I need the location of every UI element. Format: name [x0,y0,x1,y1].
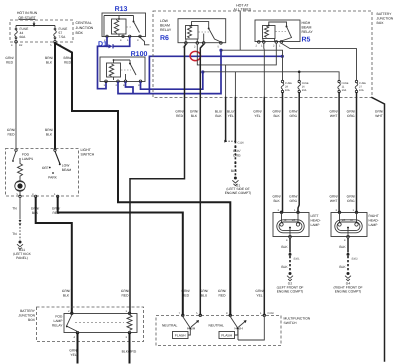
wire GRN/RED light switch to multifunction switch [52,198,190,315]
fuse feed bus [203,71,339,81]
left headlamp [273,213,321,237]
svg-text:GRN/: GRN/ [31,207,39,211]
svg-text:R13: R13 [115,6,128,13]
svg-text:10A: 10A [285,89,290,92]
svg-text:YEL: YEL [228,114,234,118]
svg-text:ENGINE COMPT): ENGINE COMPT) [225,191,252,195]
navy highlighted wire to R5/fuses [149,56,282,93]
svg-text:BLK/: BLK/ [233,149,240,153]
svg-text:BEAM: BEAM [160,24,170,28]
fog lamp relay [52,314,137,333]
svg-text:RED: RED [8,133,16,137]
battery junction box (bottom) [37,307,144,342]
svg-text:LOW: LOW [160,19,169,23]
svg-text:TN: TN [12,207,17,211]
svg-text:JUNCTION: JUNCTION [377,17,394,21]
svg-text:HOT IN RUN: HOT IN RUN [17,11,38,15]
multifunction switch box [156,316,281,346]
wire TN to ground G31 [12,198,21,241]
svg-text:GRN/: GRN/ [69,348,77,352]
svg-text:7.5A: 7.5A [59,35,67,39]
multifunction switch high/flash contacts 2 [209,317,247,339]
svg-text:BLK: BLK [191,114,198,118]
svg-text:RED: RED [6,61,14,65]
R5 pins [256,41,283,48]
svg-text:BLK: BLK [273,199,280,203]
wire R6 coil to R5 coil (through red circle) [197,43,276,65]
diode D1 and navy wire from R13 to R100 pin 1 [98,38,130,89]
light switch pin for fog [15,149,17,151]
svg-text:WHT: WHT [330,114,338,118]
relay R13 [102,13,146,37]
battery junction box (top) [153,11,372,98]
right headlamp ground wire BLK [339,238,358,271]
svg-text:BLK: BLK [215,114,222,118]
multifunction switch high/flash contacts 1 [162,317,199,339]
svg-text:JUNCTION: JUNCTION [76,26,94,30]
svg-text:BLU: BLU [201,294,208,298]
svg-text:GRN/: GRN/ [255,289,263,293]
svg-text:BOX: BOX [377,21,385,25]
inline connector C126 [224,140,244,145]
ground G1 [225,177,252,195]
svg-text:FLASH: FLASH [221,334,232,338]
svg-text:LEFT: LEFT [311,214,319,218]
svg-text:BRN/: BRN/ [45,128,53,132]
wire BLK/ORG from fog lamp relay down [122,334,137,363]
fuse 11 [338,80,349,92]
svg-text:BLK: BLK [339,265,346,269]
svg-text:GRN/: GRN/ [5,56,13,60]
wire GRN/BLK light switch to fog lamp relay [31,198,72,314]
svg-text:LAMP: LAMP [311,223,321,227]
central junction box [10,20,73,42]
svg-text:ORG: ORG [290,114,298,118]
svg-text:ORG: ORG [290,199,298,203]
svg-text:YEL: YEL [254,114,260,118]
svg-text:RED: RED [122,294,130,298]
svg-text:BLK: BLK [273,114,280,118]
svg-text:S101: S101 [294,258,301,261]
svg-text:FOG: FOG [55,314,63,318]
wire from navy node to HOT feed [221,50,283,80]
relay R5 [255,20,300,42]
svg-text:BRN/: BRN/ [45,56,53,60]
svg-text:PARK: PARK [48,176,58,180]
svg-text:GRN/: GRN/ [62,289,70,293]
svg-text:RED: RED [176,114,184,118]
svg-text:RELAY: RELAY [302,30,314,34]
svg-text:C202: C202 [268,312,275,315]
multifunction internal wire to pin 1 [238,317,264,340]
wire R5 switch to fuse 27 [281,43,356,80]
svg-text:BATTERY: BATTERY [377,12,393,16]
wire BRN/BLK from fuse 57 to light switch [45,43,55,149]
right headlamp [331,213,379,237]
svg-text:GRN/: GRN/ [218,289,226,293]
node HOT AT ALL TIMES [233,3,251,11]
svg-text:ORG: ORG [347,199,355,203]
main light switch lever [42,151,71,179]
wire GRN/YEL from R5 pin 1 to multifunction switch [253,43,264,315]
svg-text:RELAY: RELAY [52,323,63,327]
svg-text:FLASH: FLASH [175,334,186,338]
svg-text:OFF: OFF [42,166,49,170]
svg-text:LAMP: LAMP [369,223,379,227]
fuse 44 [15,26,29,41]
svg-text:D2: D2 [19,44,23,47]
svg-text:WHT: WHT [330,199,338,203]
svg-text:SWITCH: SWITCH [284,321,298,325]
wire BRN/RED from pin 5 down to multifunction switch [55,43,230,315]
svg-text:10A: 10A [359,89,364,92]
svg-text:GRN/: GRN/ [175,109,183,113]
left headlamp ground wire BLK [281,238,300,271]
svg-text:RED: RED [219,294,227,298]
svg-text:GRN/: GRN/ [253,109,261,113]
svg-text:PANEL): PANEL) [16,256,28,260]
svg-text:10A: 10A [302,89,307,92]
node HOT IN RUN OR START [17,11,38,20]
ground G31 [13,241,32,261]
svg-text:RELAY: RELAY [160,28,172,32]
red highlight circle on junction [190,51,200,60]
svg-text:BOX: BOX [28,318,36,322]
light switch box [6,149,79,197]
fog indicator lamp [15,181,25,196]
svg-text:BLK: BLK [281,265,288,269]
relay R6 [178,19,226,43]
svg-text:C126: C126 [238,142,245,145]
wire GRN/RED from R6 pin 1 to fog lamp relay [121,44,186,313]
wire BLK/ORG dashed to ground G1 [231,141,241,175]
svg-text:BLU/: BLU/ [215,109,222,113]
wire GRN/BLK from R6 pin 3 to multifunction switch [190,44,208,315]
left headlamp pins [278,209,300,242]
svg-text:GRN/: GRN/ [329,109,337,113]
right headlamp pins [336,209,358,242]
svg-text:60A: 60A [20,35,27,39]
svg-text:LO: LO [292,219,295,222]
svg-text:HEAD-: HEAD- [369,219,379,223]
R100 pins [104,80,142,87]
svg-text:YEL: YEL [70,353,76,357]
svg-text:GRN/: GRN/ [190,109,198,113]
svg-text:JUNCTION: JUNCTION [18,314,35,318]
svg-text:WHT: WHT [375,114,383,118]
svg-text:RED: RED [53,211,61,215]
svg-text:GRN/: GRN/ [347,194,355,198]
svg-text:GRN/: GRN/ [272,109,280,113]
svg-text:LAMPS: LAMPS [22,157,34,161]
svg-text:GRN/: GRN/ [272,194,280,198]
fog lamps switch [12,151,34,162]
svg-text:SWITCH: SWITCH [81,153,95,157]
wire GRN/RED from fuse 44 to light switch [5,43,16,149]
svg-text:RED: RED [64,61,72,65]
svg-text:RED: RED [182,294,190,298]
svg-text:GRN/: GRN/ [289,194,297,198]
fuse 16 [298,80,309,92]
wire GRN/YEL from fog lamp relay down [69,334,77,363]
svg-text:BLU/: BLU/ [227,109,234,113]
svg-text:FOG: FOG [22,153,30,157]
wire GRN/WHT right margin [372,98,385,362]
relay R100 [100,57,145,82]
svg-text:HI: HI [284,219,287,222]
svg-text:GRN/: GRN/ [7,128,15,132]
svg-text:CENTRAL: CENTRAL [76,21,92,25]
wire GRN/BLK fuse 29 to left headlamp [272,93,282,212]
svg-text:S102: S102 [352,258,359,261]
svg-text:LIGHT: LIGHT [81,148,92,152]
wire GRN/ORG fuse 16 to left headlamp [289,93,299,212]
svg-text:BLK: BLK [46,61,53,65]
navy node dot on R6 pin 5 wire [219,49,222,52]
wire GRN/ORG fuse 27 to right headlamp [347,93,357,212]
svg-text:BRN/: BRN/ [64,56,72,60]
svg-text:LAMP: LAMP [54,319,64,323]
svg-text:HEAD-: HEAD- [311,219,321,223]
svg-text:GRN/: GRN/ [347,109,355,113]
svg-text:LOW: LOW [62,164,70,168]
svg-text:NEUTRAL: NEUTRAL [209,324,225,328]
navy node dot at right end [281,55,284,58]
svg-text:GRN/: GRN/ [200,289,208,293]
pin 4 of CJB [11,41,23,48]
svg-text:TN: TN [12,232,17,236]
navy wire R100 pin 2 to junction at x221 [118,50,221,93]
multifunction switch pins [179,312,275,317]
svg-text:BLK: BLK [231,169,238,173]
pin 5 of CJB [50,41,62,48]
fog lamp relay pins [68,310,131,339]
wire BLU/YEL to ground chain [227,72,235,141]
R6 pins [183,42,223,49]
svg-text:ENGINE COMPT): ENGINE COMPT) [335,290,362,294]
ground G2 [277,272,304,294]
svg-text:LO: LO [342,219,345,222]
navy wire R100 pin 5 east to node dot [141,72,203,89]
svg-text:BLK: BLK [32,211,39,215]
svg-text:BLK: BLK [339,245,346,249]
svg-text:HIGH: HIGH [302,21,311,25]
svg-text:R6: R6 [160,35,169,42]
svg-text:BLK: BLK [281,245,288,249]
fog indicator resistor [18,158,23,181]
svg-text:RIGHT: RIGHT [369,214,379,218]
svg-text:GRN/: GRN/ [121,289,129,293]
svg-text:GRN/: GRN/ [181,289,189,293]
fuse 27 [355,80,366,92]
svg-text:BATTERY: BATTERY [20,309,36,313]
wire bus inside CJB [16,25,55,27]
svg-text:GRN/: GRN/ [289,109,297,113]
svg-text:BLK: BLK [63,294,70,298]
light switch bottom pins [17,193,59,198]
ground G4 [334,272,363,294]
svg-text:10A: 10A [342,89,347,92]
fuse 29 [281,80,292,92]
wire from R13 pin 3 toward relay R6 area [140,37,149,44]
wire from HOT AT ALL TIMES down [239,12,241,51]
svg-text:BEAM: BEAM [302,26,312,30]
svg-text:YEL: YEL [256,294,262,298]
navy node dot at bus left end [201,70,204,73]
svg-text:BEAM: BEAM [62,168,72,172]
svg-text:GRN/: GRN/ [329,194,337,198]
R13 pins [104,35,141,42]
wire feed into junction box [33,22,36,27]
svg-text:R5: R5 [302,37,311,44]
wire GRN/WHT fuse 11 to right headlamp [329,93,339,212]
svg-text:MULTIFUNCTION: MULTIFUNCTION [284,317,311,321]
svg-text:BOX: BOX [76,31,84,35]
light switch pin for main [54,149,56,151]
svg-text:GRN/: GRN/ [52,207,60,211]
svg-text:ORG: ORG [233,154,241,158]
svg-text:HI: HI [350,219,353,222]
fuse 57 [54,26,68,41]
navy wire R100 pin 3 jog [126,83,134,94]
relay R6 labels [160,19,172,42]
svg-text:BLK: BLK [46,133,53,137]
wire BLU/BLK from bus area to connector [215,65,226,141]
svg-text:GRN/: GRN/ [375,109,383,113]
svg-text:ENGINE COMPT): ENGINE COMPT) [277,290,304,294]
svg-text:BLK/ORG: BLK/ORG [122,350,137,354]
relay R5 labels [302,21,314,44]
svg-text:ORG: ORG [347,114,355,118]
svg-text:NEUTRAL: NEUTRAL [162,324,178,328]
